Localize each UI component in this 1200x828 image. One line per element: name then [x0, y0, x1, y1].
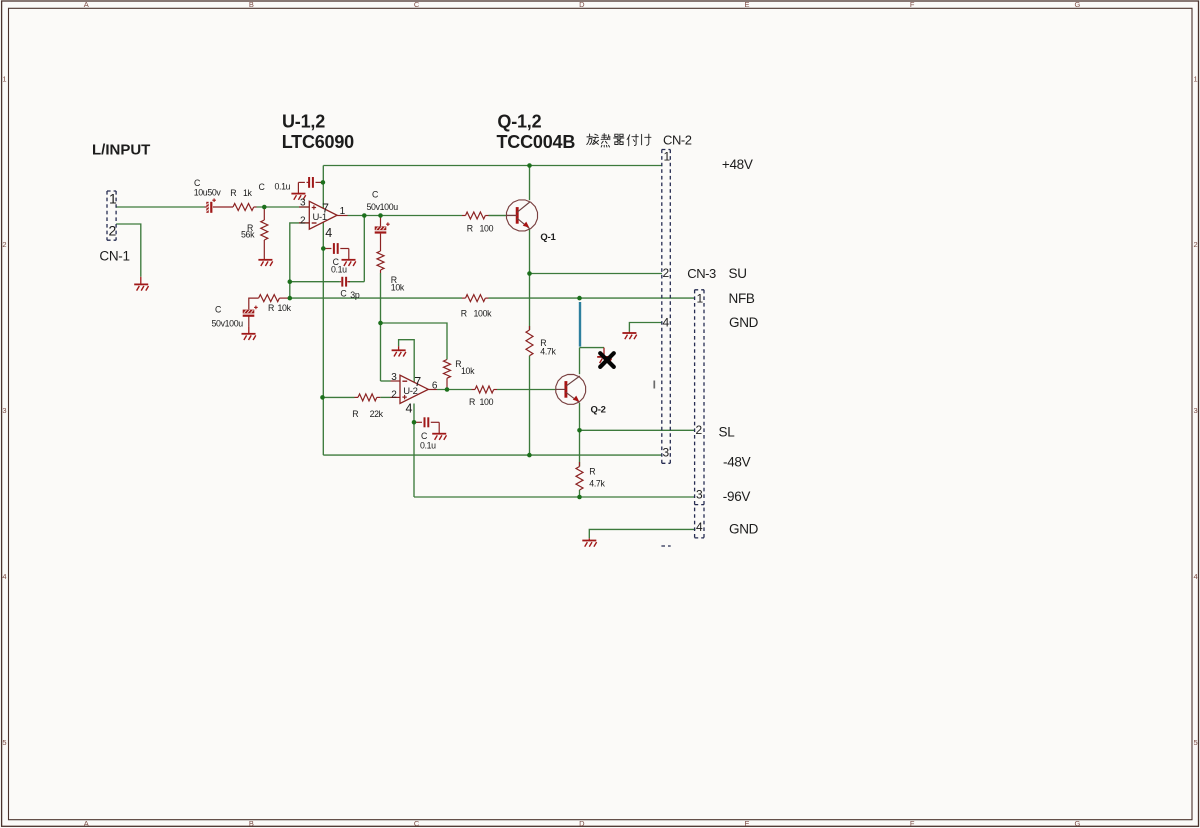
- svg-text:7: 7: [414, 375, 421, 389]
- svg-text:1: 1: [1194, 74, 1198, 83]
- svg-text:6: 6: [432, 380, 438, 391]
- svg-text:1: 1: [697, 292, 704, 306]
- svg-text:2: 2: [663, 266, 670, 280]
- svg-text:10k: 10k: [461, 366, 475, 376]
- svg-text:4: 4: [696, 520, 703, 534]
- svg-text:3: 3: [391, 372, 397, 383]
- svg-text:G: G: [1074, 819, 1080, 828]
- svg-text:+48V: +48V: [722, 157, 753, 172]
- svg-text:F: F: [910, 0, 915, 9]
- svg-text:Q-1,2: Q-1,2: [497, 112, 541, 132]
- svg-text:R: R: [469, 397, 475, 407]
- svg-text:2: 2: [109, 223, 117, 239]
- svg-text:NFB: NFB: [729, 291, 755, 306]
- svg-text:E: E: [744, 0, 749, 9]
- svg-text:C: C: [414, 0, 420, 9]
- svg-text:2: 2: [1194, 240, 1198, 249]
- svg-text:C: C: [340, 289, 347, 299]
- svg-text:3: 3: [300, 197, 306, 208]
- svg-text:50v100u: 50v100u: [367, 202, 399, 212]
- svg-text:100k: 100k: [474, 308, 493, 318]
- svg-text:0.1u: 0.1u: [275, 182, 291, 192]
- svg-text:D: D: [579, 0, 585, 9]
- svg-text:Q-1: Q-1: [540, 232, 556, 243]
- svg-text:R: R: [352, 409, 358, 419]
- svg-text:4: 4: [406, 402, 413, 416]
- svg-text:10k: 10k: [278, 303, 292, 313]
- svg-text:2: 2: [391, 389, 397, 400]
- svg-text:0.1u: 0.1u: [331, 265, 347, 275]
- svg-text:SU: SU: [729, 266, 747, 281]
- svg-text:100: 100: [480, 224, 494, 234]
- svg-text:100: 100: [480, 397, 494, 407]
- svg-text:R: R: [589, 467, 595, 477]
- svg-text:5: 5: [2, 738, 6, 747]
- svg-text:C: C: [421, 431, 428, 441]
- svg-text:1: 1: [664, 150, 671, 164]
- svg-text:GND: GND: [729, 521, 759, 536]
- svg-text:R: R: [268, 303, 274, 313]
- svg-text:Q-2: Q-2: [591, 405, 606, 416]
- svg-text:10u50v: 10u50v: [194, 187, 222, 197]
- svg-text:4.7k: 4.7k: [589, 479, 605, 489]
- svg-text:50v100u: 50v100u: [212, 319, 244, 329]
- svg-text:10k: 10k: [391, 283, 405, 293]
- svg-text:-96V: -96V: [723, 489, 751, 504]
- svg-text:C: C: [414, 819, 420, 828]
- svg-text:22k: 22k: [370, 409, 384, 419]
- svg-text:LTC6090: LTC6090: [282, 132, 354, 152]
- svg-text:A: A: [84, 0, 89, 9]
- svg-text:3: 3: [1194, 406, 1198, 415]
- svg-text:2: 2: [2, 240, 6, 249]
- svg-text:4: 4: [325, 226, 332, 240]
- svg-text:U-1,2: U-1,2: [282, 112, 325, 132]
- svg-text:R: R: [467, 224, 473, 234]
- svg-text:1: 1: [2, 74, 6, 83]
- svg-text:R: R: [230, 188, 236, 198]
- svg-text:B: B: [249, 819, 254, 828]
- svg-text:R: R: [461, 308, 467, 318]
- svg-text:C: C: [259, 182, 266, 192]
- svg-text:4: 4: [663, 316, 670, 330]
- svg-text:56k: 56k: [241, 230, 255, 240]
- svg-text:-48V: -48V: [723, 455, 751, 470]
- svg-text:4: 4: [2, 572, 6, 581]
- svg-text:1: 1: [109, 191, 117, 207]
- svg-text:1: 1: [340, 206, 346, 217]
- svg-text:D: D: [579, 819, 585, 828]
- svg-text:2: 2: [300, 215, 306, 226]
- svg-text:0.1u: 0.1u: [420, 441, 436, 451]
- svg-text:G: G: [1074, 0, 1080, 9]
- svg-text:3: 3: [696, 487, 703, 501]
- svg-text:CN-1: CN-1: [99, 249, 129, 264]
- svg-text:C: C: [215, 305, 222, 315]
- svg-text:C: C: [372, 190, 379, 200]
- svg-text:L/INPUT: L/INPUT: [92, 142, 150, 159]
- svg-text:SL: SL: [719, 424, 736, 439]
- svg-text:E: E: [744, 819, 749, 828]
- svg-text:7: 7: [322, 202, 329, 216]
- svg-text:3p: 3p: [350, 290, 360, 300]
- svg-text:2: 2: [696, 423, 703, 437]
- svg-text:A: A: [84, 819, 89, 828]
- svg-text:B: B: [249, 0, 254, 9]
- svg-text:CN-2: CN-2: [663, 132, 692, 147]
- svg-text:4: 4: [1194, 572, 1198, 581]
- svg-text:TCC004B: TCC004B: [497, 132, 576, 152]
- svg-text:4.7k: 4.7k: [540, 347, 556, 357]
- svg-text:1k: 1k: [243, 188, 253, 198]
- svg-text:GND: GND: [729, 315, 759, 330]
- svg-text:F: F: [910, 819, 915, 828]
- svg-text:3: 3: [663, 446, 670, 460]
- svg-text:CN-3: CN-3: [687, 266, 716, 281]
- svg-text:5: 5: [1194, 738, 1198, 747]
- svg-text:3: 3: [2, 406, 6, 415]
